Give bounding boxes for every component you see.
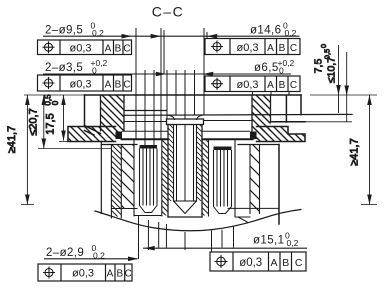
right pin cap bbox=[214, 147, 232, 151]
svg-text:C: C bbox=[290, 43, 297, 54]
svg-text:≤10,7: ≤10,7 bbox=[326, 57, 338, 83]
arrowhead left at x=207 (dia14,6) bbox=[207, 34, 217, 39]
svg-text:C: C bbox=[295, 257, 303, 269]
dim line <=10,7 bbox=[346, 52, 348, 122]
center boss bottom bbox=[168, 216, 202, 218]
right wall line bbox=[285, 96, 287, 123]
below-break leader x=166.4 bbox=[165, 224, 167, 248]
extension line y=148.5 left bbox=[38, 148, 111, 150]
below-break leader x=233.5 bbox=[233, 226, 235, 248]
svg-text:2–ø2,9: 2–ø2,9 bbox=[46, 247, 84, 259]
seal groove lines left bbox=[122, 131, 168, 139]
below-break leader x=148.4 bbox=[147, 220, 149, 250]
dim line >=41,7 left bbox=[26, 95, 28, 205]
svg-text:B: B bbox=[279, 43, 286, 54]
svg-text:A: A bbox=[105, 80, 112, 91]
internal shelf edge right inner bbox=[204, 120, 252, 122]
left cavity foot bbox=[134, 215, 162, 217]
centerline x=185 bbox=[184, 70, 186, 250]
arrowhead right at x=131.7 bbox=[122, 34, 132, 39]
internal shelf edge long (crosses boss mouth) bbox=[124, 113, 352, 116]
below-break leader x=222 bbox=[221, 230, 223, 248]
svg-text:B: B bbox=[279, 80, 286, 91]
right cavity walls bbox=[209, 140, 236, 217]
svg-text:C: C bbox=[123, 80, 130, 91]
left lower outer wall bbox=[100, 142, 102, 214]
below-break leader x=158.7 bbox=[158, 222, 160, 248]
right web hatch between boss and cavity bbox=[202, 140, 209, 216]
cavity top surface edge bbox=[121, 139, 253, 141]
right flange outline bbox=[257, 127, 306, 142]
svg-text:A: A bbox=[270, 257, 277, 269]
left inner wall lines bbox=[111, 145, 121, 219]
svg-text:B: B bbox=[115, 80, 122, 91]
svg-text:ø0,3: ø0,3 bbox=[239, 257, 262, 269]
left chamfer wedge at flange top bbox=[85, 126, 101, 136]
bore edge leader x=194.5 bbox=[194, 70, 196, 115]
svg-text:ø0,3: ø0,3 bbox=[69, 79, 91, 91]
right outer edge upper bbox=[300, 95, 302, 115]
dim line >=41,7 right bbox=[369, 95, 371, 205]
svg-text:2–ø9,5: 2–ø9,5 bbox=[45, 25, 83, 37]
extension line top edge right y=95 bbox=[310, 94, 377, 96]
left pin tip bbox=[140, 206, 158, 213]
extension line y=204.5 left bbox=[21, 204, 34, 206]
svg-text:0,2: 0,2 bbox=[92, 28, 104, 38]
hole edge leader x=145 (dia3,5 left) bbox=[144, 70, 146, 145]
shelf edge near break right bbox=[228, 207, 279, 209]
svg-text:0: 0 bbox=[92, 66, 97, 76]
svg-text:17,5: 17,5 bbox=[45, 113, 57, 134]
right flange bottom double edge bbox=[238, 144, 279, 146]
svg-text:≥41,7: ≥41,7 bbox=[349, 138, 361, 165]
short verticals below right frame bbox=[253, 92, 290, 96]
right narrow wall hatch bbox=[250, 145, 260, 213]
left cavity walls bbox=[134, 140, 162, 217]
svg-text:C: C bbox=[123, 44, 130, 55]
right cavity foot bbox=[235, 217, 250, 223]
right flange hatch bbox=[257, 127, 306, 142]
svg-text:ø0,3: ø0,3 bbox=[72, 268, 94, 280]
short leader vertical x=207 bbox=[206, 32, 208, 39]
mouth fillet left bbox=[168, 115, 175, 119]
break line (freehand cut) bbox=[95, 210, 301, 231]
center boss outer walls bbox=[168, 125, 202, 218]
left flange bottom double edge bbox=[101, 144, 137, 146]
dim line 7,5 bbox=[338, 45, 340, 113]
left upper wall hatch outline bbox=[101, 95, 125, 132]
position symbol bbox=[45, 43, 53, 51]
extension y=114.6 right bbox=[305, 114, 352, 116]
hole edge leader x=136 (dia9,5 left) bbox=[135, 28, 137, 140]
svg-text:ø0,3: ø0,3 bbox=[236, 42, 258, 54]
left seal (black) bbox=[116, 132, 123, 140]
left narrow wall hatch bbox=[111, 145, 121, 217]
right inner wall lines bbox=[250, 145, 260, 214]
internal shelf edge left bbox=[124, 110, 167, 112]
bore edge leader x=176 bbox=[175, 70, 177, 115]
shelf edge near break left bbox=[111, 208, 137, 210]
right pin body lines bbox=[214, 150, 232, 207]
svg-text:A: A bbox=[267, 80, 274, 91]
left pin cap bbox=[140, 145, 158, 149]
svg-text:ø0,3: ø0,3 bbox=[69, 43, 91, 55]
center bore conical tip bbox=[174, 201, 197, 214]
right lower outer wall bbox=[278, 145, 280, 225]
left outer edge upper bbox=[84, 95, 86, 126]
arrowhead right at x=160.9 bbox=[151, 34, 161, 39]
seal groove lines right bbox=[202, 131, 250, 139]
svg-text:A: A bbox=[105, 44, 112, 55]
arrowhead left at x=203 (dia6,5) bbox=[203, 72, 213, 77]
right seal (black) bbox=[250, 132, 257, 140]
bore inner walls dia6,5 bbox=[177, 125, 194, 202]
extension line top edge left y=95 bbox=[24, 94, 85, 96]
center boss inner bore walls bbox=[174, 125, 197, 202]
hole edge leader x=154 (dia3,5 right) bbox=[153, 70, 155, 146]
dim line <=20,7 bbox=[43, 95, 45, 149]
svg-text:A: A bbox=[267, 43, 274, 54]
right upper wall hatch outline bbox=[252, 95, 271, 132]
svg-text:B: B bbox=[115, 44, 122, 55]
below-break leader x=211.5 bbox=[211, 231, 213, 252]
right pin tip bbox=[214, 207, 232, 214]
svg-text:C–C: C–C bbox=[152, 4, 185, 20]
svg-text:ø6,5: ø6,5 bbox=[254, 62, 279, 74]
svg-text:B: B bbox=[282, 257, 289, 269]
right upper wall hatch bbox=[252, 95, 271, 132]
left flange hatch bbox=[68, 127, 116, 142]
below-break leader x=138.5 bbox=[138, 216, 140, 259]
hole edge leader x=167 (dia14,6 left) bbox=[166, 70, 168, 119]
boss wall hatch strips bbox=[168, 125, 174, 202]
left flange outline bbox=[68, 127, 116, 142]
arrowhead right at x=138 y=259 bbox=[128, 257, 138, 262]
arrowhead left at x=150 y=247.5 bbox=[145, 246, 155, 251]
dim line 17,5 bbox=[63, 95, 65, 141]
svg-text:ø15,1: ø15,1 bbox=[253, 235, 284, 247]
left pin body lines bbox=[140, 149, 158, 206]
svg-text:ø14,6: ø14,6 bbox=[250, 25, 281, 37]
hole edge leader x=164 bbox=[163, 30, 165, 74]
svg-text:ø0,3: ø0,3 bbox=[236, 79, 258, 91]
top edge of body bbox=[85, 94, 302, 96]
svg-text:0,2: 0,2 bbox=[93, 251, 105, 261]
svg-text:0,5: 0,5 bbox=[44, 94, 53, 106]
mouth fillet right bbox=[197, 115, 204, 120]
svg-text:C: C bbox=[125, 269, 132, 280]
sparse hatch insert left bbox=[121, 145, 134, 209]
svg-text:2–ø3,5: 2–ø3,5 bbox=[45, 62, 83, 74]
hole edge leader x=204 (dia14,6 right) bbox=[203, 28, 205, 115]
svg-text:≤20,7: ≤20,7 bbox=[28, 108, 40, 135]
extension y=121.8 right bbox=[305, 121, 352, 123]
svg-text:0,2: 0,2 bbox=[285, 28, 297, 38]
svg-text:C: C bbox=[290, 80, 297, 91]
hole edge leader x=161 (dia9,5 right) bbox=[160, 28, 162, 140]
internal shelf edge left third bbox=[124, 121, 167, 123]
left upper wall hatch bbox=[101, 95, 125, 132]
arrowhead right at x=166 bbox=[156, 72, 166, 77]
center boss cap bbox=[167, 119, 204, 125]
internal shelf edge right y=121.8 bbox=[271, 121, 306, 123]
extension of flange bottom left bbox=[59, 141, 68, 143]
leader 2-dia3,5 / dia6,5 shoulder y=74 bbox=[43, 73, 291, 75]
extension line y=204.5 right bbox=[361, 204, 377, 206]
leader 2-dia2,9 shoulder y=259 bbox=[44, 258, 138, 260]
leader dia15,1 shoulder y=247.5 bbox=[143, 247, 307, 249]
svg-text:0: 0 bbox=[319, 44, 328, 48]
svg-text:0: 0 bbox=[279, 66, 284, 76]
svg-text:7,5: 7,5 bbox=[313, 59, 325, 74]
left web hatch between cavity and boss bbox=[162, 140, 168, 216]
svg-text:A: A bbox=[107, 269, 114, 280]
svg-text:≥41,7: ≥41,7 bbox=[6, 126, 18, 153]
bore cone shoulder bbox=[174, 200, 197, 202]
leader 2-dia9,5 / dia14,6 shoulder y=36 bbox=[43, 35, 300, 37]
svg-text:0,2: 0,2 bbox=[287, 238, 299, 248]
svg-text:B: B bbox=[116, 269, 123, 280]
